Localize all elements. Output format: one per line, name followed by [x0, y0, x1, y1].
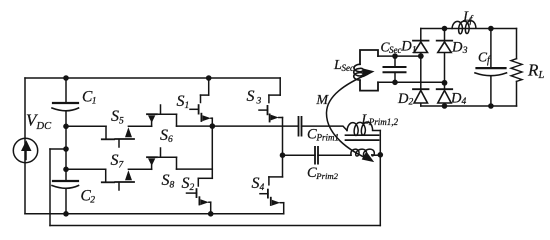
- svg-text:Sec: Sec: [389, 45, 402, 55]
- svg-text:L: L: [538, 70, 545, 81]
- svg-text:1: 1: [412, 45, 417, 55]
- svg-text:8: 8: [170, 181, 175, 191]
- svg-text:Prim2: Prim2: [315, 171, 338, 181]
- svg-text:DC: DC: [36, 121, 53, 132]
- svg-text:R: R: [527, 61, 539, 80]
- svg-text:2: 2: [409, 98, 414, 108]
- svg-text:Prim1,2: Prim1,2: [368, 117, 399, 127]
- svg-text:f: f: [470, 14, 474, 25]
- svg-text:3: 3: [462, 46, 468, 56]
- svg-text:2: 2: [90, 196, 95, 206]
- svg-text:D: D: [400, 39, 412, 55]
- svg-text:M: M: [315, 93, 329, 108]
- svg-text:S: S: [160, 127, 168, 144]
- svg-text:C: C: [307, 127, 317, 143]
- svg-text:S: S: [177, 93, 185, 110]
- svg-text:2: 2: [190, 183, 195, 193]
- svg-text:1: 1: [185, 101, 190, 111]
- svg-text:Sec: Sec: [342, 63, 355, 73]
- svg-text:4: 4: [260, 183, 265, 193]
- svg-text:3: 3: [256, 97, 262, 107]
- svg-text:7: 7: [119, 161, 125, 171]
- svg-text:S: S: [252, 175, 260, 192]
- svg-text:D: D: [451, 39, 463, 55]
- svg-text:S: S: [111, 152, 119, 169]
- svg-text:S: S: [182, 175, 190, 192]
- svg-text:1: 1: [92, 97, 97, 107]
- svg-text:5: 5: [119, 117, 124, 127]
- svg-text:S: S: [111, 108, 119, 125]
- svg-text:4: 4: [462, 97, 467, 107]
- svg-text:D: D: [397, 91, 409, 107]
- svg-text:6: 6: [168, 135, 173, 145]
- svg-text:D: D: [450, 91, 462, 107]
- svg-text:Prim1: Prim1: [316, 133, 340, 143]
- svg-text:S: S: [162, 172, 170, 189]
- svg-text:S: S: [247, 88, 255, 105]
